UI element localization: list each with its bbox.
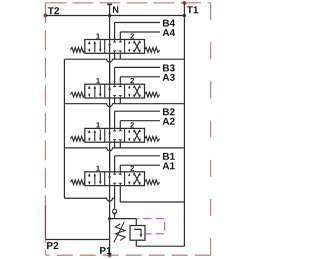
right tank return line bbox=[183, 16, 185, 247]
port P1 (red dot) bbox=[108, 253, 112, 257]
left boundary solid segment bbox=[44, 205, 46, 239]
V3 P-stub to tank passage bbox=[114, 98, 116, 104]
valve V2 box3 crossed arrows bbox=[133, 129, 141, 141]
relief valve RV1 body bbox=[130, 226, 145, 241]
port T1 (red dot) bbox=[183, 1, 187, 5]
valve V1 box2 blocked port B bottom bbox=[113, 183, 116, 185]
junction pump-relief bbox=[108, 217, 111, 220]
valve V4 box2 blocked port A bottom bbox=[119, 51, 122, 53]
valve V2 box2 bypass passage bbox=[108, 128, 111, 142]
valve V2 box2 blocked port A bottom bbox=[119, 140, 122, 142]
label B2 bbox=[163, 108, 175, 115]
tank line T2-T1 bbox=[45, 15, 184, 17]
label P2 bbox=[47, 242, 58, 249]
work line B1 bbox=[115, 155, 160, 157]
valve V1 box1 up arrow bbox=[94, 173, 97, 185]
valve V3 left spring bbox=[70, 92, 84, 97]
N port cap tick bbox=[107, 3, 112, 5]
bypass through section below V2 bbox=[109, 142, 111, 172]
label B4 bbox=[163, 20, 175, 27]
valve V3 position label 2 bbox=[130, 78, 134, 83]
valve V1 spool boxes bbox=[85, 172, 145, 186]
label A2 bbox=[163, 118, 175, 125]
bypass drop T-line to V4 bbox=[109, 16, 111, 40]
valve V4 box1 up arrow bbox=[94, 41, 97, 53]
valve V4 box1 bypass-cut arrows bbox=[88, 41, 91, 53]
relief valve RV1 flow arrow bbox=[134, 229, 143, 237]
N riser to tank line bbox=[109, 4, 111, 15]
work line A4 bbox=[120, 31, 160, 33]
label A3 bbox=[163, 74, 175, 81]
valve V3 right spring bbox=[145, 92, 160, 97]
valve V4 box3 bypass-cut arrows bbox=[128, 41, 130, 53]
valve V1 box3 bypass-cut arrows bbox=[128, 173, 130, 185]
valve V2 box1 up arrow bbox=[94, 130, 97, 142]
valve V3 position label 1 bbox=[96, 78, 99, 83]
valve V3 box2 blocked port B bottom bbox=[113, 96, 116, 98]
section separator 2 (tank passage, hop over bypass) bbox=[64, 104, 184, 107]
label P1 bbox=[100, 247, 111, 254]
V2 A-stub to tank passage bbox=[119, 142, 121, 148]
work line B3 riser bbox=[114, 67, 116, 84]
valve V3 box1 bypass-cut arrows bbox=[88, 85, 91, 97]
valve V3 box2 bypass passage bbox=[108, 84, 111, 98]
valve V3 box3 crossed arrows bbox=[133, 85, 141, 97]
work line B2 riser bbox=[114, 111, 116, 128]
label B1 bbox=[163, 153, 175, 160]
relief valve RV1 spring bbox=[115, 224, 125, 241]
valve V1 box2 blocked port A bottom bbox=[119, 183, 122, 185]
valve body envelope (red dashed boundary) bbox=[45, 3, 210, 255]
bypass drop to V1 bbox=[109, 148, 111, 172]
bypass through section below V3 bbox=[109, 98, 111, 128]
valve V2 box2 blocked port A top bbox=[119, 128, 122, 130]
bypass through section below V4 bbox=[109, 53, 111, 84]
valve V4 position label 1 bbox=[96, 33, 99, 38]
valve V1 box3 crossed arrows bbox=[133, 173, 141, 185]
bypass below V1 bbox=[109, 186, 111, 219]
valve V3 spool boxes bbox=[85, 84, 145, 98]
valve V3 box2 blocked port A top bbox=[119, 84, 122, 86]
valve V1 box1 bypass-cut arrows bbox=[88, 173, 91, 185]
bottom separator (ends at P gallery, hop over bypass) bbox=[64, 198, 114, 201]
work line B2 bbox=[115, 110, 160, 112]
valve V4 left spring bbox=[70, 47, 84, 52]
V3 A-stub to tank passage bbox=[119, 98, 121, 104]
valve V4 box2 bypass passage bbox=[108, 40, 111, 54]
work line A3 riser bbox=[119, 77, 121, 84]
valve V3 box2 blocked port B top bbox=[113, 84, 116, 86]
V4 P-stub to tank passage bbox=[114, 53, 116, 59]
valve V1 box2 blocked port B top bbox=[113, 172, 116, 174]
V2 P-stub to tank passage bbox=[114, 142, 116, 148]
valve V2 box3 bypass-cut arrows bbox=[128, 130, 130, 142]
junction N-tank bbox=[108, 14, 111, 17]
left tank gallery bbox=[63, 59, 65, 198]
valve V1 left spring bbox=[70, 180, 84, 185]
label A1 bbox=[163, 162, 175, 169]
work line A2 riser bbox=[119, 121, 121, 129]
valve V4 box3 crossed arrows bbox=[133, 41, 141, 53]
valve V3 box1 up arrow bbox=[94, 85, 97, 97]
valve V2 position label 2 bbox=[130, 122, 134, 127]
valve V3 box2 blocked port A bottom bbox=[119, 96, 122, 98]
valve V2 box2 blocked port B bottom bbox=[113, 140, 116, 142]
pump line to relief valve bbox=[110, 218, 137, 220]
valve V4 box2 blocked port A top bbox=[119, 40, 122, 42]
valve V4 spool boxes bbox=[85, 40, 145, 54]
valve V2 box1 bypass-cut arrows bbox=[88, 130, 91, 142]
junction T1-tank bbox=[183, 14, 186, 17]
work line A4 riser bbox=[119, 32, 121, 40]
work line B3 bbox=[115, 66, 160, 68]
valve V1 position label 1 bbox=[96, 166, 99, 171]
bypass drop to V2 bbox=[109, 104, 111, 129]
valve V2 right spring bbox=[145, 136, 160, 141]
T1 riser bbox=[183, 3, 185, 16]
valve V4 box2 blocked port B top bbox=[113, 40, 116, 42]
work line B1 riser bbox=[114, 156, 116, 172]
valve V3 box3 bypass-cut arrows bbox=[128, 85, 130, 97]
valve V1 box2 blocked port A top bbox=[119, 172, 122, 174]
valve V1 box1 down arrow bbox=[99, 173, 102, 185]
valve V2 position label 1 bbox=[96, 122, 99, 127]
V1 A-stub corner to right tank return bbox=[120, 186, 184, 202]
V4 A-stub to tank passage bbox=[119, 53, 121, 59]
valve V2 box2 blocked port B top bbox=[113, 128, 116, 130]
valve V1 position label 2 bbox=[130, 166, 134, 171]
relief valve RV1 adjustment arrow bbox=[114, 222, 125, 243]
work line A1 riser bbox=[119, 165, 121, 172]
label A4 bbox=[163, 29, 175, 36]
work line B4 bbox=[115, 22, 160, 24]
check valve on P gallery feed bbox=[112, 198, 117, 218]
pilot line (magenta dashed) bbox=[137, 219, 165, 234]
bypass drop to V3 bbox=[109, 59, 111, 84]
relief valve inlet drop bbox=[135, 219, 137, 226]
valve V2 spool boxes bbox=[85, 128, 145, 142]
relief valve outlet to tank bbox=[136, 240, 184, 246]
valve V4 box1 down arrow bbox=[99, 41, 102, 53]
label T1 bbox=[187, 6, 198, 13]
P2 feed line bbox=[45, 239, 109, 241]
work line A1 bbox=[120, 164, 160, 166]
label B3 bbox=[163, 64, 175, 71]
label T2 bbox=[48, 7, 59, 14]
work line A2 bbox=[120, 120, 160, 122]
valve V4 position label 2 bbox=[130, 33, 134, 38]
V1 P-stub to bottom separator bbox=[114, 186, 116, 199]
port T2 (red dot) bbox=[44, 14, 48, 18]
section separator 3 (tank passage, hop over bypass) bbox=[64, 148, 184, 151]
valve V1 box2 bypass passage bbox=[108, 172, 111, 186]
work line B4 riser bbox=[114, 23, 116, 40]
work line A3 bbox=[120, 76, 160, 78]
pump column to P1 bbox=[109, 219, 111, 256]
label N bbox=[113, 6, 118, 12]
valve V3 box1 down arrow bbox=[99, 85, 102, 97]
section separator 1 (tank passage, hop over bypass) bbox=[64, 59, 184, 62]
valve V2 box1 down arrow bbox=[99, 129, 102, 141]
valve V2 left spring bbox=[70, 136, 84, 141]
valve V4 right spring bbox=[145, 47, 160, 52]
valve V1 right spring bbox=[145, 180, 160, 185]
valve V4 box2 blocked port B bottom bbox=[113, 51, 116, 53]
